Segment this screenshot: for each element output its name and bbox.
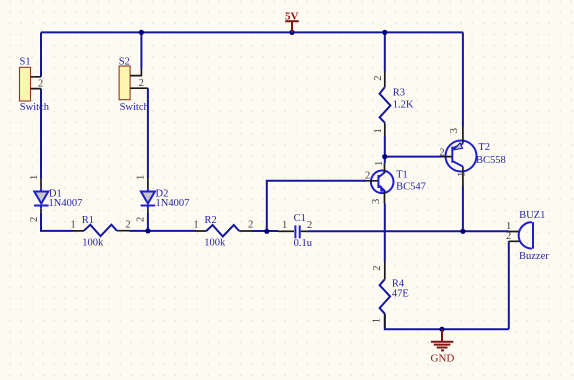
svg-text:T2: T2 — [478, 142, 490, 153]
svg-text:2: 2 — [365, 170, 370, 181]
svg-text:2: 2 — [29, 217, 40, 222]
svg-text:S1: S1 — [20, 56, 31, 67]
switch S2 — [119, 56, 150, 113]
svg-text:Switch: Switch — [120, 102, 150, 113]
wire R4 to ground rail — [385, 314, 509, 330]
wire D2 to bottom rail — [147, 213, 149, 231]
junction T1 base tap — [264, 229, 269, 234]
svg-text:3: 3 — [371, 199, 382, 204]
svg-text:1N4007: 1N4007 — [156, 198, 190, 209]
svg-text:GND: GND — [431, 353, 455, 365]
wire D1 to bottom rail — [41, 213, 73, 231]
junction S2 branch — [139, 30, 144, 35]
svg-text:5V: 5V — [285, 11, 299, 23]
junction 5V stem — [289, 30, 294, 35]
switch S1 — [20, 56, 50, 113]
wire T1 emitter to R4 — [384, 204, 386, 262]
transistor T2 BC558 — [439, 127, 505, 187]
svg-text:100k: 100k — [82, 238, 104, 249]
diode D1 — [29, 175, 82, 222]
svg-text:3: 3 — [449, 128, 460, 133]
svg-text:1: 1 — [282, 220, 287, 231]
svg-text:2: 2 — [307, 220, 312, 231]
svg-text:100k: 100k — [204, 238, 226, 249]
svg-text:47E: 47E — [392, 288, 409, 299]
resistor R4 — [372, 262, 409, 328]
wire halo (sharpening artifact) — [41, 32, 509, 329]
svg-text:1: 1 — [457, 172, 468, 177]
svg-text:S2: S2 — [119, 56, 130, 67]
wire bottom rail R1-R2 — [130, 230, 197, 232]
svg-text:Switch: Switch — [20, 102, 50, 113]
svg-text:2: 2 — [125, 220, 130, 231]
wire S2 to D2 — [147, 88, 149, 178]
wire C1 to buzzer — [308, 230, 509, 232]
junction R3 T1 T2 node — [382, 154, 387, 159]
svg-text:1: 1 — [71, 220, 76, 231]
capacitor C1 — [278, 213, 313, 249]
svg-text:1: 1 — [193, 220, 198, 231]
svg-text:BC547: BC547 — [396, 181, 426, 192]
junction R3 branch — [382, 30, 387, 35]
svg-text:BUZ1: BUZ1 — [519, 210, 545, 221]
wire R3 bottom to node — [384, 136, 386, 163]
svg-text:R3: R3 — [393, 88, 405, 99]
resistor R2 — [193, 215, 253, 249]
svg-text:R2: R2 — [205, 215, 217, 226]
diode D2 — [136, 175, 190, 222]
wire T2 collector down — [462, 186, 464, 231]
svg-text:T1: T1 — [396, 169, 408, 180]
wire T1 base tap — [267, 181, 366, 232]
svg-text:1: 1 — [29, 175, 40, 180]
svg-text:2: 2 — [38, 78, 43, 89]
svg-text:R1: R1 — [82, 215, 94, 226]
junction GND — [439, 327, 444, 332]
resistor R3 — [373, 71, 414, 136]
svg-text:1: 1 — [374, 161, 385, 166]
svg-text:2: 2 — [373, 76, 384, 81]
power 5V — [285, 11, 299, 33]
wire node to T2 base — [385, 156, 441, 158]
junction D2 bottom — [145, 228, 150, 233]
wire top 5V rail — [41, 31, 463, 33]
transistor T1 BC547 — [365, 161, 426, 204]
svg-text:2: 2 — [139, 78, 144, 89]
svg-text:2: 2 — [136, 217, 147, 222]
wire R2 to C1 — [252, 230, 278, 232]
svg-text:1: 1 — [373, 128, 384, 133]
resistor R1 — [71, 215, 131, 249]
wire S1 to D1 — [40, 89, 42, 178]
svg-text:BC558: BC558 — [476, 155, 506, 166]
svg-text:0.1u: 0.1u — [294, 238, 313, 249]
svg-text:1N4007: 1N4007 — [49, 198, 83, 209]
wire T2 emitter top — [462, 32, 464, 126]
svg-text:2: 2 — [372, 265, 383, 270]
wire S2 top branch — [140, 32, 142, 68]
wire R3 top — [384, 32, 386, 71]
svg-text:2: 2 — [506, 231, 511, 242]
wire buzzer pin2 down — [508, 241, 510, 329]
svg-text:2: 2 — [439, 147, 444, 158]
buzzer BUZ1 — [506, 210, 549, 262]
svg-text:1.2K: 1.2K — [393, 99, 414, 110]
junction T2 collector — [460, 229, 465, 234]
wire S1 top branch — [40, 32, 42, 76]
svg-text:2: 2 — [248, 220, 253, 231]
svg-text:C1: C1 — [294, 213, 306, 224]
svg-text:1: 1 — [372, 318, 383, 323]
svg-text:Buzzer: Buzzer — [519, 251, 549, 262]
ground GND — [431, 329, 455, 364]
svg-text:1: 1 — [136, 175, 147, 180]
